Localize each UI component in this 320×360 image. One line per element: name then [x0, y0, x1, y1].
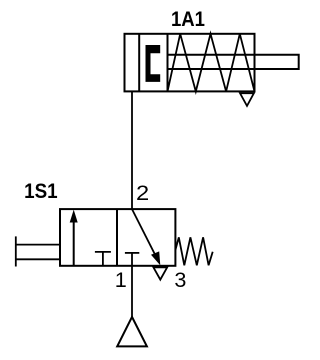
valve 1S1 exhaust triangle port 3: [153, 267, 167, 279]
valve 1S1 plunger actuator: [16, 236, 60, 266]
cylinder 1A1 body: [125, 34, 255, 92]
svg-text:1S1: 1S1: [24, 178, 58, 203]
port label 2: [136, 180, 149, 205]
wire valve port 1 to supply: [131, 266, 133, 317]
wire cylinder port to valve port 2: [131, 91, 133, 209]
svg-text:1: 1: [115, 267, 127, 292]
cylinder 1A1 piston rod: [168, 55, 299, 69]
valve 1S1 return spring: [175, 237, 212, 265]
port label 3: [174, 267, 186, 292]
valve 1S1 body boxes: [60, 209, 175, 266]
svg-text:3: 3: [174, 267, 186, 292]
label 1S1: [24, 178, 58, 203]
valve 1S1 left box flow arrow: [70, 210, 78, 266]
cylinder 1A1 return spring: [168, 34, 255, 92]
svg-text:2: 2: [136, 180, 149, 205]
valve 1S1 left box blocked port T: [95, 252, 111, 266]
port label 1: [115, 267, 127, 292]
cylinder 1A1 piston magnet bracket: [146, 45, 161, 82]
valve 1S1 right box blocked port T: [125, 253, 139, 266]
label 1A1: [171, 6, 205, 31]
cylinder 1A1 vent triangle: [240, 93, 254, 106]
cylinder 1A1 piston right face: [167, 34, 169, 92]
svg-text:1A1: 1A1: [171, 6, 205, 31]
cylinder 1A1 piston left face: [138, 34, 140, 92]
valve 1S1 right box flow path 2 to 3: [132, 209, 160, 265]
compressed air supply source: [117, 317, 147, 347]
